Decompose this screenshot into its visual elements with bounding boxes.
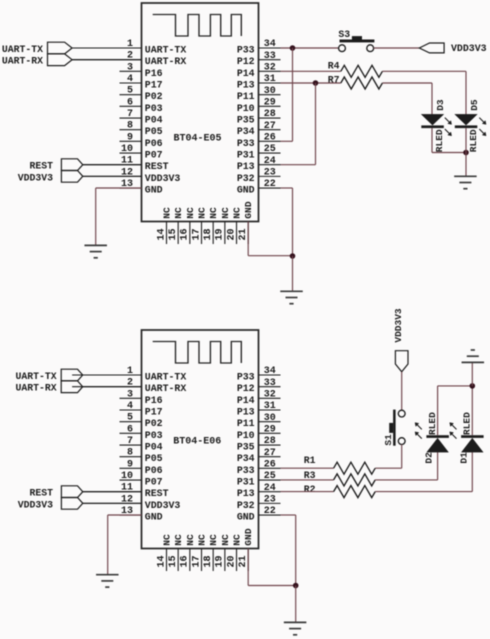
wire UART-RX to U1 pin 2 xyxy=(72,59,141,61)
U2 pin 19 (NC) bottom stub + number + name xyxy=(215,534,231,571)
resistor R4 xyxy=(341,65,383,77)
svg-text:32: 32 xyxy=(264,63,276,74)
port REST label (U1) xyxy=(29,161,53,172)
wire S3 to VDD3V3 port xyxy=(374,47,420,49)
svg-text:20: 20 xyxy=(226,228,237,240)
U2 pin 14 (NC) bottom stub + number + name xyxy=(156,534,172,571)
U1 pin 18 (NC) bottom stub + number + name xyxy=(203,207,219,244)
svg-text:18: 18 xyxy=(203,228,214,240)
wire U2 pin25 to R3 xyxy=(281,479,334,481)
svg-text:NC: NC xyxy=(173,207,184,219)
svg-text:S3: S3 xyxy=(338,29,350,40)
svg-text:P11: P11 xyxy=(237,91,255,102)
wire D2 anode down run xyxy=(437,452,439,480)
U1 pin 12 (VDD3V3) stub + number + name xyxy=(83,167,181,184)
switch S3 pushbutton xyxy=(339,36,375,52)
wire U1 pin32 to R4 xyxy=(281,70,341,72)
svg-text:14: 14 xyxy=(156,555,167,567)
wire U1 pin13 GND down run xyxy=(95,188,97,245)
wire pin34 junction down to pin26 xyxy=(292,48,294,141)
svg-text:RLED: RLED xyxy=(462,412,473,435)
wire R7 to D3 top xyxy=(382,83,432,114)
wire VDD3V3 to U1 pin 12 xyxy=(83,175,142,177)
svg-text:P16: P16 xyxy=(145,395,163,406)
U1 antenna meander xyxy=(153,15,242,37)
wire U2 pin22 GND right run xyxy=(281,514,296,516)
LED D5 light arrows xyxy=(479,118,486,136)
U1 pin 27 (P34) stub + number + name xyxy=(237,121,281,137)
svg-text:VDD3V3: VDD3V3 xyxy=(145,173,181,184)
power port VDD3V3 (vertical) xyxy=(395,351,408,372)
svg-text:BT04-E06: BT04-E06 xyxy=(173,436,221,447)
svg-text:32: 32 xyxy=(264,390,276,401)
svg-text:VDD3V3: VDD3V3 xyxy=(145,500,181,511)
svg-text:P31: P31 xyxy=(237,477,255,488)
U1 pin 20 (NC) bottom stub + number + name xyxy=(226,207,242,244)
LED D5 value label RLED xyxy=(468,129,479,152)
ground symbol below U2 right xyxy=(284,622,307,634)
svg-text:29: 29 xyxy=(264,425,276,436)
power port VDD3V3 (top right) xyxy=(419,43,444,53)
port UART-RX connector (U2) xyxy=(61,381,82,393)
svg-text:GND: GND xyxy=(237,512,255,523)
svg-text:34: 34 xyxy=(264,366,276,377)
U2 pin 13 (GND) stub + number + name xyxy=(120,506,163,523)
svg-text:34: 34 xyxy=(264,39,276,50)
svg-text:26: 26 xyxy=(264,133,276,144)
svg-text:NC: NC xyxy=(197,534,208,546)
svg-text:UART-RX: UART-RX xyxy=(15,383,56,394)
svg-text:P05: P05 xyxy=(145,453,163,464)
U2 pin 18 (NC) bottom stub + number + name xyxy=(203,534,219,571)
LED D3 xyxy=(421,114,444,128)
U1 pin 17 (NC) bottom stub + number + name xyxy=(191,207,207,244)
U2 pin 33 (P12) stub + number + name xyxy=(237,378,281,394)
LED D3 light arrows xyxy=(445,118,452,136)
U1 pin 4 (P17) stub + number + name xyxy=(120,74,163,91)
svg-text:14: 14 xyxy=(156,228,167,240)
svg-text:24: 24 xyxy=(264,483,276,494)
port UART-TX label (U2) xyxy=(15,371,56,382)
svg-text:NC: NC xyxy=(185,534,196,546)
svg-text:R1: R1 xyxy=(304,455,316,466)
svg-text:P16: P16 xyxy=(145,68,163,79)
U1 pin 19 (NC) bottom stub + number + name xyxy=(215,207,231,244)
LED D5 xyxy=(455,114,478,128)
svg-text:15: 15 xyxy=(168,228,179,240)
svg-text:33: 33 xyxy=(264,51,276,62)
svg-text:GND: GND xyxy=(145,512,163,523)
svg-text:NC: NC xyxy=(220,534,231,546)
wire D2 cathode up run xyxy=(437,386,439,435)
svg-text:D1: D1 xyxy=(458,452,469,464)
svg-text:VDD3V3: VDD3V3 xyxy=(393,308,404,343)
wire UART-TX to U2 pin 1 xyxy=(83,374,142,376)
U1 pin 2 (UART-RX) stub + number + name xyxy=(72,51,186,68)
LED D2 xyxy=(426,435,449,452)
LED D1 value label RLED xyxy=(462,412,473,435)
svg-text:10: 10 xyxy=(121,471,133,482)
svg-text:23: 23 xyxy=(264,168,276,179)
resistor R3 label xyxy=(304,470,316,481)
wire U1 pin21 GND down run xyxy=(247,222,249,256)
svg-text:P11: P11 xyxy=(237,418,255,429)
ground symbol below U2 pin 13 xyxy=(96,575,119,587)
svg-text:P35: P35 xyxy=(237,115,255,126)
svg-text:P33: P33 xyxy=(237,45,255,56)
U2 designator BT04-E06 xyxy=(173,436,221,447)
wire REST to U2 pin 11 xyxy=(83,491,142,493)
port UART-TX connector (U2) xyxy=(61,369,82,381)
wire D1 anode down run xyxy=(471,452,473,492)
port UART-RX label (U2) xyxy=(15,383,56,394)
svg-text:P07: P07 xyxy=(145,150,163,161)
svg-text:P34: P34 xyxy=(237,453,255,464)
LED D3 designator label xyxy=(435,99,446,111)
svg-text:UART-TX: UART-TX xyxy=(145,372,187,383)
svg-text:P02: P02 xyxy=(145,418,163,429)
switch S3 label xyxy=(338,29,350,40)
LED D1 designator label xyxy=(458,452,469,464)
svg-text:18: 18 xyxy=(203,555,214,567)
svg-text:NC: NC xyxy=(232,534,243,546)
svg-text:P03: P03 xyxy=(145,103,163,114)
svg-text:NC: NC xyxy=(197,207,208,219)
U1 pin 29 (P10) stub + number + name xyxy=(237,98,281,114)
LED D2 designator label xyxy=(424,452,435,464)
wire D5 cathode to ground xyxy=(465,128,467,176)
port VDD3V3 connector (U1) xyxy=(61,171,82,183)
svg-text:21: 21 xyxy=(238,228,249,240)
svg-text:S1: S1 xyxy=(383,434,394,446)
svg-text:NC: NC xyxy=(173,534,184,546)
U1 pin 10 (P07) stub + number + name xyxy=(120,144,163,161)
port VDD3V3 label (U2) xyxy=(18,499,53,510)
svg-text:3: 3 xyxy=(127,62,133,73)
U1 pin 24 (P13) stub + number + name xyxy=(237,156,281,172)
svg-text:NC: NC xyxy=(162,207,173,219)
svg-text:20: 20 xyxy=(226,555,237,567)
U1 pin 22 (GND) stub + number + name xyxy=(237,179,281,195)
svg-text:REST: REST xyxy=(145,161,169,172)
svg-text:5: 5 xyxy=(127,86,133,97)
svg-text:REST: REST xyxy=(145,488,169,499)
ground symbol below U1 right xyxy=(280,291,303,303)
svg-text:RLED: RLED xyxy=(427,412,438,435)
wire UART-RX to U2 pin 2 xyxy=(83,386,142,388)
U2 pin 17 (NC) bottom stub + number + name xyxy=(191,534,207,571)
wire D3 cathode down xyxy=(431,128,433,152)
port REST connector (U2) xyxy=(61,486,82,498)
U1 pin 16 (NC) bottom stub + number + name xyxy=(180,207,196,244)
LED D1 xyxy=(461,435,484,452)
svg-text:P02: P02 xyxy=(145,91,163,102)
U2 pin 15 (NC) bottom stub + number + name xyxy=(168,534,184,571)
svg-text:UART-TX: UART-TX xyxy=(2,44,43,55)
resistor R7 label xyxy=(328,74,340,85)
wire D3 to D5 node xyxy=(432,152,466,154)
LED D2 light arrows xyxy=(415,423,422,439)
svg-text:24: 24 xyxy=(264,156,276,167)
U2 pin 3 (P16) stub + number + name xyxy=(120,389,163,406)
wire U1 pin13 GND left run xyxy=(96,187,142,189)
svg-text:R4: R4 xyxy=(328,61,340,72)
svg-text:UART-RX: UART-RX xyxy=(145,56,187,67)
resistor R7 xyxy=(341,77,383,89)
U2 antenna meander xyxy=(153,342,242,364)
svg-text:P10: P10 xyxy=(237,103,255,114)
svg-text:33: 33 xyxy=(264,378,276,389)
U2 pin 24 (P13) stub + number + name xyxy=(237,483,281,499)
svg-text:21: 21 xyxy=(238,555,249,567)
junction node U2 GND net xyxy=(293,583,299,589)
U2 pin 7 (P04) stub + number + name xyxy=(120,436,163,453)
svg-text:16: 16 xyxy=(180,228,191,240)
svg-text:GND: GND xyxy=(243,528,254,546)
svg-text:17: 17 xyxy=(191,555,202,567)
U2 pin 30 (P11) stub + number + name xyxy=(237,413,281,429)
U2 pin 16 (NC) bottom stub + number + name xyxy=(180,534,196,571)
svg-text:UART-RX: UART-RX xyxy=(145,383,187,394)
wire U2 pin13 GND down run xyxy=(107,515,109,575)
VDD3V3 label (vertical, U2) xyxy=(393,308,404,343)
svg-text:VDD3V3: VDD3V3 xyxy=(18,172,53,183)
wire VDD3V3 to U2 pin 12 xyxy=(83,502,142,504)
svg-text:5: 5 xyxy=(127,413,133,424)
wire U1 pin21 GND right run xyxy=(248,255,292,257)
svg-text:7: 7 xyxy=(127,109,133,120)
switch S1 label xyxy=(383,434,394,446)
port UART-TX label (U1) xyxy=(2,44,43,55)
svg-text:GND: GND xyxy=(237,185,255,196)
svg-text:15: 15 xyxy=(168,555,179,567)
svg-text:9: 9 xyxy=(127,459,133,470)
U1 designator BT04-E05 xyxy=(174,134,222,145)
svg-text:P32: P32 xyxy=(237,500,255,511)
port VDD3V3 label (U1) xyxy=(18,172,53,183)
U2 pin 4 (P17) stub + number + name xyxy=(120,401,163,418)
svg-text:REST: REST xyxy=(29,488,53,499)
svg-text:D3: D3 xyxy=(435,99,446,111)
wire VDD3V3 port to S1 xyxy=(401,372,403,410)
IC U2 BT04-E06 body outline xyxy=(142,330,259,549)
svg-text:30: 30 xyxy=(264,413,276,424)
wire S1 to R1 corner xyxy=(375,445,402,469)
svg-text:UART-TX: UART-TX xyxy=(15,371,56,382)
svg-text:UART-RX: UART-RX xyxy=(2,56,43,67)
svg-text:26: 26 xyxy=(264,460,276,471)
U1 pin 26 (P33) stub + number + name xyxy=(237,133,281,149)
wire junction to ground xyxy=(292,256,294,291)
svg-text:31: 31 xyxy=(264,74,276,85)
svg-text:GND: GND xyxy=(243,201,254,219)
resistor R2 label xyxy=(304,484,316,495)
wire UART-TX to U1 pin 1 xyxy=(72,47,141,49)
U2 pin 2 (UART-RX) stub + number + name xyxy=(72,378,186,395)
svg-text:GND: GND xyxy=(145,185,163,196)
wire U1 pin26 stub to vertical xyxy=(281,140,293,142)
svg-text:P12: P12 xyxy=(237,383,255,394)
U2 pin 34 (P33) stub + number + name xyxy=(237,366,281,382)
svg-text:NC: NC xyxy=(208,207,219,219)
port REST connector (U1) xyxy=(61,159,82,171)
U2 pin 9 (P06) stub + number + name xyxy=(120,459,163,476)
svg-text:4: 4 xyxy=(127,74,133,85)
U1 pin 28 (P35) stub + number + name xyxy=(237,109,281,125)
svg-text:NC: NC xyxy=(162,534,173,546)
svg-text:9: 9 xyxy=(127,132,133,143)
svg-text:UART-TX: UART-TX xyxy=(145,45,187,56)
port UART-RX label (U1) xyxy=(2,56,43,67)
svg-text:6: 6 xyxy=(127,97,133,108)
U2 pin 26 (P33) stub + number + name xyxy=(237,460,281,476)
U1 pin 5 (P02) stub + number + name xyxy=(120,86,163,103)
junction node pin31/pin24 net xyxy=(313,80,319,86)
U1 pin 30 (P11) stub + number + name xyxy=(237,86,281,102)
junction node pin34/pin26 net xyxy=(290,45,296,51)
wire U1 pin22 GND down run xyxy=(292,188,294,256)
svg-text:P04: P04 xyxy=(145,442,163,453)
ground symbol below D5 xyxy=(454,176,477,188)
wire R2 to D1 anode xyxy=(375,491,472,493)
wire U1 pin22 GND right run xyxy=(281,187,293,189)
U2 pin 20 (NC) bottom stub + number + name xyxy=(226,534,242,571)
U2 pin 5 (P02) stub + number + name xyxy=(120,413,163,430)
wire pin31 junction down to pin24 xyxy=(315,83,317,165)
wire junction up to ground xyxy=(471,362,473,386)
resistor R2 xyxy=(334,486,376,498)
U2 pin 12 (VDD3V3) stub + number + name xyxy=(83,494,181,511)
svg-text:P33: P33 xyxy=(237,138,255,149)
U1 pin 15 (NC) bottom stub + number + name xyxy=(168,207,184,244)
svg-text:BT04-E05: BT04-E05 xyxy=(174,134,222,145)
svg-text:10: 10 xyxy=(121,144,133,155)
svg-text:P33: P33 xyxy=(237,372,255,383)
svg-text:P13: P13 xyxy=(237,80,255,91)
LED D5 designator label xyxy=(469,99,480,111)
wire U2 pin21 GND right run xyxy=(248,585,296,587)
svg-text:NC: NC xyxy=(185,207,196,219)
svg-text:R2: R2 xyxy=(304,484,316,495)
ground symbol above D1 (inverted) xyxy=(462,350,485,362)
svg-text:19: 19 xyxy=(215,228,226,240)
svg-text:7: 7 xyxy=(127,436,133,447)
svg-text:P13: P13 xyxy=(237,161,255,172)
svg-text:REST: REST xyxy=(29,161,53,172)
svg-text:P03: P03 xyxy=(145,430,163,441)
svg-text:8: 8 xyxy=(127,448,133,459)
svg-text:P34: P34 xyxy=(237,126,255,137)
junction node U1 GND net xyxy=(290,253,296,259)
svg-text:8: 8 xyxy=(127,121,133,132)
LED D1 light arrows xyxy=(450,423,457,439)
svg-text:P17: P17 xyxy=(145,407,163,418)
svg-text:31: 31 xyxy=(264,401,276,412)
svg-text:16: 16 xyxy=(180,555,191,567)
wire R3 to D2 anode xyxy=(375,479,437,481)
U2 pin 23 (P32) stub + number + name xyxy=(237,495,281,511)
svg-text:22: 22 xyxy=(264,506,276,517)
wire D1 cathode up run xyxy=(471,386,473,435)
svg-text:P31: P31 xyxy=(237,150,255,161)
resistor R1 xyxy=(334,462,376,474)
wire U2 pin13 GND left run xyxy=(108,514,142,516)
wire junction to ground (U2) xyxy=(295,586,297,623)
svg-text:30: 30 xyxy=(264,86,276,97)
resistor R1 label xyxy=(304,455,316,466)
svg-text:22: 22 xyxy=(264,179,276,190)
svg-text:P17: P17 xyxy=(145,80,163,91)
svg-text:NC: NC xyxy=(232,207,243,219)
U1 pin 7 (P04) stub + number + name xyxy=(120,109,163,126)
svg-text:P12: P12 xyxy=(237,56,255,67)
svg-text:P06: P06 xyxy=(145,138,163,149)
U2 pin 31 (P13) stub + number + name xyxy=(237,401,281,417)
svg-text:P05: P05 xyxy=(145,126,163,137)
U1 pin 9 (P06) stub + number + name xyxy=(120,132,163,149)
svg-text:P04: P04 xyxy=(145,115,163,126)
U2 pin 8 (P05) stub + number + name xyxy=(120,448,163,465)
U1 pin 11 (REST) stub + number + name xyxy=(83,156,169,173)
svg-text:P35: P35 xyxy=(237,442,255,453)
junction node D1/D2 cathodes xyxy=(470,383,476,389)
LED D2 value label RLED xyxy=(427,412,438,435)
switch S1 pushbutton xyxy=(389,410,405,446)
svg-text:VDD3V3: VDD3V3 xyxy=(451,43,487,54)
svg-text:RLED: RLED xyxy=(434,129,445,152)
svg-text:27: 27 xyxy=(264,121,276,132)
svg-text:23: 23 xyxy=(264,495,276,506)
svg-text:28: 28 xyxy=(264,109,276,120)
svg-text:6: 6 xyxy=(127,424,133,435)
junction node D3/D5 cathodes xyxy=(463,150,469,156)
U1 pin 21 (GND) bottom stub + number + name xyxy=(238,201,254,244)
svg-text:NC: NC xyxy=(208,534,219,546)
port REST label (U2) xyxy=(29,488,53,499)
U2 pin 21 (GND) bottom stub + number + name xyxy=(238,528,254,571)
U1 pin 1 (UART-TX) stub + number + name xyxy=(72,39,186,56)
U2 pin 29 (P10) stub + number + name xyxy=(237,425,281,441)
wire D2 cathode to D1 node xyxy=(438,385,473,387)
wire U2 pin26 to R1 xyxy=(281,467,334,469)
wire U1 pin24 stub to vertical xyxy=(281,164,316,166)
svg-text:19: 19 xyxy=(215,555,226,567)
svg-text:P10: P10 xyxy=(237,430,255,441)
wire U2 pin24 to R2 xyxy=(281,491,334,493)
svg-text:P14: P14 xyxy=(237,68,255,79)
U1 pin 13 (GND) stub + number + name xyxy=(120,179,163,196)
svg-text:P06: P06 xyxy=(145,465,163,476)
svg-text:25: 25 xyxy=(264,471,276,482)
wire U2 pin21 GND down run xyxy=(247,549,249,586)
svg-text:NC: NC xyxy=(220,207,231,219)
IC U1 BT04-E05 body outline xyxy=(142,3,259,222)
port VDD3V3 connector (U2) xyxy=(61,498,82,510)
wire U1 pin34 to S3 xyxy=(281,47,339,49)
U2 pin 25 (P31) stub + number + name xyxy=(237,471,281,487)
svg-text:25: 25 xyxy=(264,144,276,155)
svg-text:D2: D2 xyxy=(424,452,435,464)
U2 pin 32 (P14) stub + number + name xyxy=(237,390,281,406)
svg-text:27: 27 xyxy=(264,448,276,459)
svg-text:3: 3 xyxy=(127,389,133,400)
svg-text:P13: P13 xyxy=(237,488,255,499)
U2 pin 11 (REST) stub + number + name xyxy=(83,483,169,500)
resistor R3 xyxy=(334,474,376,486)
svg-text:P14: P14 xyxy=(237,395,255,406)
svg-text:29: 29 xyxy=(264,98,276,109)
U1 pin 6 (P03) stub + number + name xyxy=(120,97,163,114)
